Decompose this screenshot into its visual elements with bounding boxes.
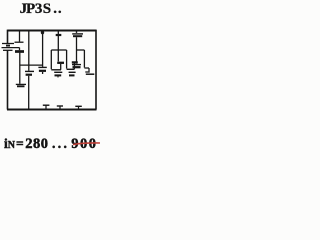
right edge wire: [95, 30, 97, 110]
capacitor left blob: [6, 45, 10, 47]
wire V51 down: [50, 50, 52, 69]
left edge wire upper: [7, 30, 9, 44]
branch B76 stub: [76, 31, 78, 33]
branch B58 wire: [57, 31, 59, 62]
wire W4: [77, 49, 85, 51]
bottom capacitor 2 stub: [59, 106, 61, 109]
branch B42 bar: [39, 70, 46, 72]
bar P2b: [69, 74, 75, 76]
bottom capacitor 1 stub: [45, 105, 47, 109]
branch B19 wire top: [19, 31, 21, 42]
branch B29 bar: [26, 74, 32, 76]
capacitor left plate 2 / wire to branch: [2, 47, 20, 49]
branch B29 wire: [28, 31, 30, 71]
capacitor left plate 3: [3, 49, 13, 51]
red strike line: [73, 143, 100, 145]
branch B19 bottom bar: [17, 85, 25, 87]
stub C1: [60, 64, 62, 70]
node dot at B42: [41, 31, 44, 34]
wire W2: [20, 64, 43, 66]
bottom bus: [7, 109, 97, 111]
left edge wire lower: [7, 50, 9, 109]
stub C2: [73, 64, 75, 70]
wire W6: [51, 69, 61, 71]
top bus: [8, 30, 97, 32]
branch B76 plate: [72, 64, 81, 66]
capacitor top-right bar: [73, 35, 82, 37]
branch B76 wire: [76, 37, 78, 64]
wire W7: [67, 68, 75, 70]
branch B58 small bar: [56, 34, 62, 36]
bottom capacitor 3 plate: [75, 105, 82, 107]
branch B19 long wire: [19, 53, 21, 84]
branch B19 plate: [15, 41, 24, 43]
svg-text:JP3S..: JP3S..: [20, 1, 62, 17]
svg-text:...: ...: [52, 136, 69, 151]
wire W8: [84, 67, 89, 69]
branch B19 bottom plate: [16, 83, 26, 85]
bottom capacitor 2 plate: [57, 105, 63, 107]
capacitor bar C1: [57, 62, 64, 64]
bottom capacitor 1 plate: [43, 104, 50, 106]
capacitor left plate 1: [2, 43, 14, 45]
branch B42 wire: [42, 31, 44, 67]
plate P2a: [69, 71, 76, 73]
bar P1b: [55, 74, 62, 76]
branch B19 thick bar: [15, 50, 24, 53]
wire V89 down: [88, 68, 90, 71]
branch B42 plate: [38, 66, 46, 68]
wire V66 down: [66, 50, 68, 69]
label iN=: [4, 136, 98, 152]
branch B19 mid wire: [19, 48, 21, 51]
wire V84 down: [83, 50, 85, 68]
capacitor top-right plate: [72, 33, 83, 35]
wire W3: [51, 49, 66, 51]
svg-text:280: 280: [25, 136, 48, 152]
branch B29 lower wire: [28, 76, 30, 110]
branch B29 plate: [25, 70, 34, 72]
stub below P1b: [57, 76, 59, 77]
plate P3b wire to right edge: [86, 73, 95, 75]
branch B42 stub: [42, 72, 44, 74]
plate P1a: [54, 71, 62, 73]
bottom capacitor 3 stub: [78, 106, 80, 109]
plate P3a: [85, 71, 89, 73]
branch B76 bar: [73, 66, 81, 68]
capacitor bar C2: [72, 61, 78, 63]
